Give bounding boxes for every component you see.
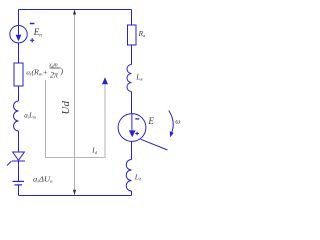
- wire left branch coil-to-diode: [18, 131, 20, 152]
- wire right branch upper: [131, 10, 133, 26]
- diode VD: [7, 152, 25, 166]
- wire right branch resistor-to-coil: [131, 45, 133, 65]
- svg-text:Rя: Rя: [138, 29, 146, 38]
- wire left branch circle-to-resistor: [18, 43, 20, 63]
- svg-text:E: E: [147, 116, 154, 126]
- wire left branch resistor-to-coil: [18, 86, 20, 101]
- speed arrow ω: [169, 111, 174, 138]
- wire top rail: [19, 9, 132, 11]
- resistor Rя: [128, 25, 137, 45]
- svg-text:aiΔUв: aiΔUв: [33, 176, 53, 184]
- wire left branch battery-to-bottom: [18, 185, 20, 196]
- wire right branch coil-to-motor: [131, 92, 133, 114]
- Ud arrow bottom: [73, 190, 76, 195]
- plus sign of E: [135, 132, 139, 136]
- svg-text:ω: ω: [175, 116, 180, 125]
- plus sign of Eп: [30, 38, 34, 42]
- svg-text:Lд: Lд: [134, 173, 142, 182]
- minus sign of E: [135, 118, 139, 120]
- svg-text:): ): [59, 67, 63, 76]
- Id current arrow: [102, 77, 108, 84]
- wire left branch upper: [18, 10, 20, 26]
- Ud voltage line: [74, 10, 76, 195]
- resistor aᵢ(Rт+xвm/2π): [14, 63, 23, 86]
- svg-text:Id: Id: [91, 147, 97, 156]
- wire right branch coil-to-bottom: [131, 191, 133, 196]
- fraction xвm over 2π: [48, 63, 63, 80]
- minus sign of Eп: [30, 23, 35, 25]
- svg-text:Lя: Lя: [135, 73, 142, 82]
- EMF source Eп (converter): [10, 26, 27, 43]
- inductor Lд: [126, 160, 131, 192]
- Id bracket line: [46, 80, 106, 158]
- EMF source E (motor): [118, 114, 146, 142]
- wire bottom rail: [19, 195, 132, 197]
- svg-text:ai(Rт+: ai(Rт+: [26, 69, 48, 77]
- svg-text:aiLт: aiLт: [24, 112, 37, 120]
- inductor Lя: [127, 65, 131, 92]
- Ud arrow top: [73, 10, 76, 15]
- inductor aᵢLт: [14, 101, 19, 131]
- svg-text:2π: 2π: [50, 71, 59, 80]
- svg-text:Eп: Eп: [33, 27, 43, 39]
- battery aᵢΔUв: [13, 181, 25, 185]
- wire right branch motor-to-coil: [131, 141, 133, 159]
- wire left branch diode-to-battery: [18, 161, 20, 182]
- svg-text:Ud: Ud: [60, 101, 72, 115]
- motor shaft: [141, 139, 168, 150]
